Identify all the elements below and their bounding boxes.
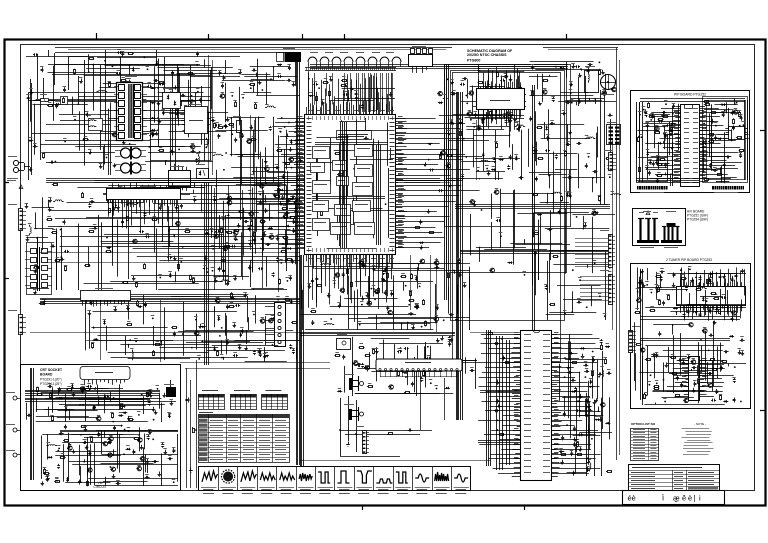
label: [657, 299, 661, 301]
label: [670, 126, 674, 128]
resistor: [532, 194, 538, 196]
ground: [198, 324, 202, 329]
label: [563, 310, 567, 312]
diode: [66, 477, 69, 482]
label: [143, 190, 147, 192]
node: [594, 262, 596, 264]
capacitor (electrolytic): [90, 300, 93, 305]
diode: [169, 273, 172, 278]
capacitor (electrolytic): [733, 398, 736, 403]
node: [279, 131, 281, 133]
label: [499, 156, 503, 158]
label: [593, 260, 597, 262]
label: [492, 166, 496, 168]
diode: [384, 267, 387, 272]
label: [402, 368, 406, 370]
inductor: [53, 200, 64, 202]
capacitor: [195, 158, 198, 163]
label: [47, 216, 51, 218]
CRT-to-tables strip wires: [185, 360, 197, 488]
label: [48, 102, 52, 104]
ground: [157, 101, 161, 105]
label: [254, 102, 258, 104]
wire: [213, 276, 249, 278]
label: [415, 303, 419, 305]
transistor: [194, 331, 199, 335]
resistor: [44, 468, 46, 474]
diode: [508, 115, 513, 118]
capacitor: [420, 377, 423, 382]
capacitor: [577, 301, 582, 304]
diode: [178, 97, 181, 102]
capacitor: [451, 91, 454, 96]
transistor: [611, 87, 616, 91]
node: [419, 286, 421, 288]
node: [703, 123, 705, 125]
label: [516, 125, 520, 127]
capacitor: [321, 101, 324, 106]
capacitor: [381, 279, 386, 282]
capacitor: [63, 87, 66, 92]
ground: [299, 159, 303, 163]
sparse wires below keypad: [339, 378, 444, 457]
svg-text:20/25G NTSC CHASSIS: 20/25G NTSC CHASSIS: [467, 53, 507, 57]
AV jack cluster 2: [661, 223, 682, 248]
label: [671, 354, 675, 356]
capacitor: [116, 72, 121, 75]
ground: [250, 125, 254, 130]
label: [232, 322, 236, 324]
diode: [71, 384, 74, 389]
label: [193, 196, 197, 198]
label: [708, 382, 712, 384]
diode: [709, 280, 712, 285]
node: [706, 300, 708, 302]
label: [211, 245, 215, 247]
regulator sub-block: [180, 105, 207, 134]
ground: [608, 166, 612, 171]
label: [660, 156, 664, 158]
resistor: [490, 111, 492, 117]
label: [29, 137, 33, 139]
ground: [158, 119, 162, 123]
label: [42, 299, 46, 301]
diode: [230, 297, 235, 300]
inductor: [126, 203, 137, 204]
wire: [71, 388, 123, 390]
ground: [450, 120, 454, 124]
label: [253, 236, 257, 238]
resistor: [136, 282, 138, 288]
node: [206, 271, 208, 273]
node: [651, 292, 653, 294]
node: [637, 291, 639, 293]
ground: [664, 133, 668, 138]
resistor: [657, 164, 663, 166]
label: [655, 352, 659, 354]
wire: [352, 337, 354, 385]
capacitor: [574, 387, 577, 392]
resistor: [66, 389, 72, 391]
label: [533, 250, 537, 252]
label: [150, 132, 154, 134]
transistor: [260, 319, 265, 323]
fuse F801: [33, 95, 55, 102]
capacitor (electrolytic): [63, 220, 66, 225]
resistor: [478, 82, 484, 84]
resistor: [109, 82, 111, 88]
wire: [233, 177, 277, 179]
label: [280, 308, 284, 310]
wire: [712, 361, 714, 391]
label: [123, 409, 127, 411]
label: [644, 392, 648, 394]
capacitor: [658, 331, 661, 336]
ground: [503, 104, 507, 108]
transistor: [110, 467, 115, 471]
capacitor: [455, 316, 458, 321]
label: [145, 458, 149, 460]
CRT board bus: [25, 368, 178, 480]
node: [287, 280, 289, 282]
capacitor: [452, 92, 457, 95]
label: [494, 141, 498, 143]
capacitor: [740, 116, 743, 121]
label: [172, 447, 176, 449]
resistor: [92, 343, 94, 349]
capacitor: [364, 137, 369, 140]
capacitor: [721, 296, 726, 299]
label: [137, 411, 141, 413]
node: [57, 450, 59, 452]
inductor: [551, 192, 562, 193]
label: [34, 268, 38, 270]
node: [92, 64, 94, 66]
node: [443, 319, 445, 321]
diode: [28, 139, 33, 142]
node: [58, 448, 60, 450]
node: [180, 261, 182, 263]
wire: [557, 285, 601, 287]
label: [285, 277, 289, 279]
label: [602, 89, 606, 91]
label: [156, 341, 160, 343]
transistor: [388, 385, 393, 389]
label: [585, 397, 589, 399]
capacitor: [571, 379, 576, 382]
ground: [364, 365, 368, 369]
res pair below keypad: [346, 429, 412, 447]
resistor: [537, 158, 543, 160]
capacitor: [128, 80, 131, 85]
IC401 inner pin names: [307, 116, 395, 252]
resistor: [55, 260, 61, 262]
label: [473, 201, 477, 203]
inductor: [590, 461, 591, 472]
node: [656, 382, 658, 384]
resistor: [648, 102, 650, 108]
label: [606, 343, 610, 345]
node: [138, 414, 140, 416]
node: [564, 313, 566, 315]
node: [211, 231, 213, 233]
node: [645, 395, 647, 397]
diode: [115, 204, 118, 209]
resistor: [178, 264, 180, 270]
capacitor: [59, 258, 64, 261]
node: [586, 306, 588, 308]
capacitor (electrolytic): [258, 349, 261, 354]
node: [650, 119, 652, 121]
resistor: [54, 481, 60, 483]
capacitor: [203, 130, 208, 133]
connector P803: [8, 311, 26, 335]
node: [589, 409, 591, 411]
ground: [113, 163, 117, 167]
label: [225, 280, 229, 282]
diode: [118, 414, 123, 417]
node: [734, 366, 736, 368]
resistor: [486, 87, 492, 89]
resistor: [653, 388, 659, 390]
capacitor (electrolytic): [159, 205, 162, 210]
title text: [467, 49, 513, 63]
label: [292, 81, 296, 83]
node: [231, 133, 233, 135]
diode: [590, 379, 593, 384]
node: [199, 151, 201, 153]
resistor: [147, 391, 149, 397]
label: [57, 445, 61, 447]
label: [161, 109, 165, 111]
capacitor (electrolytic): [222, 268, 225, 273]
ground: [279, 201, 283, 206]
label: [681, 359, 685, 361]
capacitor: [645, 112, 648, 117]
label: [372, 348, 376, 350]
capacitor: [414, 306, 419, 309]
wire: [538, 220, 540, 280]
label: [287, 64, 291, 66]
capacitor: [233, 354, 238, 357]
diode: [213, 346, 216, 351]
wire: [86, 68, 140, 70]
IC02 left fan: [481, 334, 521, 336]
capacitor (electrolytic): [144, 302, 147, 307]
node: [346, 86, 348, 88]
node: [571, 102, 573, 104]
resistor: [106, 251, 112, 253]
connector P203 grid: [607, 123, 621, 145]
capacitor: [258, 267, 263, 270]
capacitor (electrolytic): [573, 426, 576, 431]
label: [595, 416, 599, 418]
capacitor (electrolytic): [680, 383, 683, 388]
capacitor (electrolytic): [739, 153, 742, 158]
label: [710, 136, 714, 138]
transistor: [374, 289, 379, 293]
IC02 right fan: [552, 334, 592, 336]
capacitor: [57, 464, 60, 469]
transistor: [215, 299, 220, 303]
capacitor: [724, 350, 729, 353]
inductor: [324, 323, 335, 324]
label: [415, 304, 419, 306]
resistor: [592, 371, 594, 377]
label: [55, 477, 59, 479]
label: [666, 294, 670, 296]
label: [550, 120, 554, 122]
ground: [148, 430, 152, 435]
label: [730, 109, 734, 111]
capacitor: [342, 355, 345, 360]
label: [287, 256, 291, 258]
PIP small IC: [724, 127, 749, 140]
diode: [122, 412, 127, 415]
resistor: [60, 457, 66, 459]
center-right vertical bus: [533, 85, 605, 330]
capacitor: [496, 219, 501, 222]
resistor: [733, 118, 735, 124]
capacitor (electrolytic): [248, 226, 251, 231]
phono jack J502: [344, 405, 364, 422]
label: [516, 121, 520, 123]
ground: [127, 416, 131, 421]
node: [609, 274, 611, 276]
inductor: [207, 138, 208, 149]
capacitor: [503, 115, 508, 118]
transistor: [691, 360, 696, 364]
label: [146, 434, 150, 436]
capacitor: [470, 369, 475, 372]
node: [82, 404, 84, 406]
diode: [646, 151, 649, 156]
ground: [46, 477, 50, 481]
label: [284, 238, 288, 240]
label: [648, 159, 652, 161]
node: [639, 114, 641, 116]
label: [270, 233, 274, 235]
node: [280, 262, 282, 264]
node: [110, 466, 112, 468]
power supply section wires: [28, 53, 300, 181]
diode: [47, 456, 52, 459]
label: [692, 358, 696, 360]
node: [579, 279, 581, 281]
capacitor (electrolytic): [592, 357, 595, 362]
label: [360, 343, 364, 345]
node: [135, 341, 137, 343]
capacitor: [547, 228, 552, 231]
label: [719, 394, 723, 396]
node: [152, 318, 154, 320]
resistor: [659, 299, 661, 305]
node: [473, 126, 475, 128]
label: [354, 90, 358, 92]
capacitor: [116, 482, 121, 485]
label: [260, 182, 264, 184]
label: [134, 338, 138, 340]
diode: [168, 413, 171, 418]
resistor: [440, 153, 442, 159]
transistor: [440, 151, 445, 155]
capacitor: [713, 169, 718, 172]
node: [656, 287, 658, 289]
ground: [581, 354, 585, 359]
note text block: [681, 422, 713, 455]
capacitor: [450, 338, 453, 343]
label: [121, 51, 125, 53]
label: [684, 397, 688, 399]
label: [244, 218, 248, 220]
node: [664, 401, 666, 403]
label: [415, 303, 419, 305]
resistor: [703, 101, 709, 103]
ground: [687, 355, 691, 359]
diode: [55, 103, 60, 106]
resistor: [193, 277, 195, 283]
transistor: [387, 310, 392, 314]
ground: [238, 70, 242, 75]
capacitor: [180, 94, 185, 97]
node: [555, 66, 557, 68]
label: [645, 281, 649, 283]
resistor: [542, 80, 548, 82]
resistor: [321, 210, 323, 216]
label: [261, 317, 265, 319]
label: [45, 476, 49, 478]
label: [48, 391, 52, 393]
label: [134, 281, 138, 283]
label: [660, 268, 664, 270]
ground: [531, 65, 535, 69]
bottom code bar: [623, 491, 725, 505]
label: [196, 153, 200, 155]
node: [421, 326, 423, 328]
node: [641, 136, 643, 138]
ground: [259, 200, 263, 205]
node: [373, 288, 375, 290]
capacitor (electrolytic): [259, 352, 262, 357]
capacitor: [545, 285, 548, 290]
CRT option table: [198, 413, 290, 463]
transistor: [542, 90, 547, 94]
diode: [290, 139, 293, 144]
ground: [158, 472, 162, 477]
resistor: [638, 136, 640, 142]
label: [450, 79, 454, 81]
resistor: [228, 124, 234, 126]
switching regulator IC801: [169, 164, 191, 192]
label: [598, 195, 602, 197]
main bus loops: [300, 64, 610, 475]
diode: [673, 307, 678, 310]
label: [279, 259, 283, 261]
diode: [698, 282, 701, 287]
node: [408, 304, 410, 306]
label: [563, 150, 567, 152]
resistor: [249, 84, 255, 86]
transistor: [246, 139, 251, 143]
transistor: [288, 157, 293, 161]
diode: [270, 317, 275, 320]
AV board label: [687, 210, 708, 222]
node: [241, 154, 243, 156]
label: [738, 110, 742, 112]
ground: [473, 202, 477, 206]
resistor: [74, 69, 76, 75]
label: [687, 354, 691, 356]
